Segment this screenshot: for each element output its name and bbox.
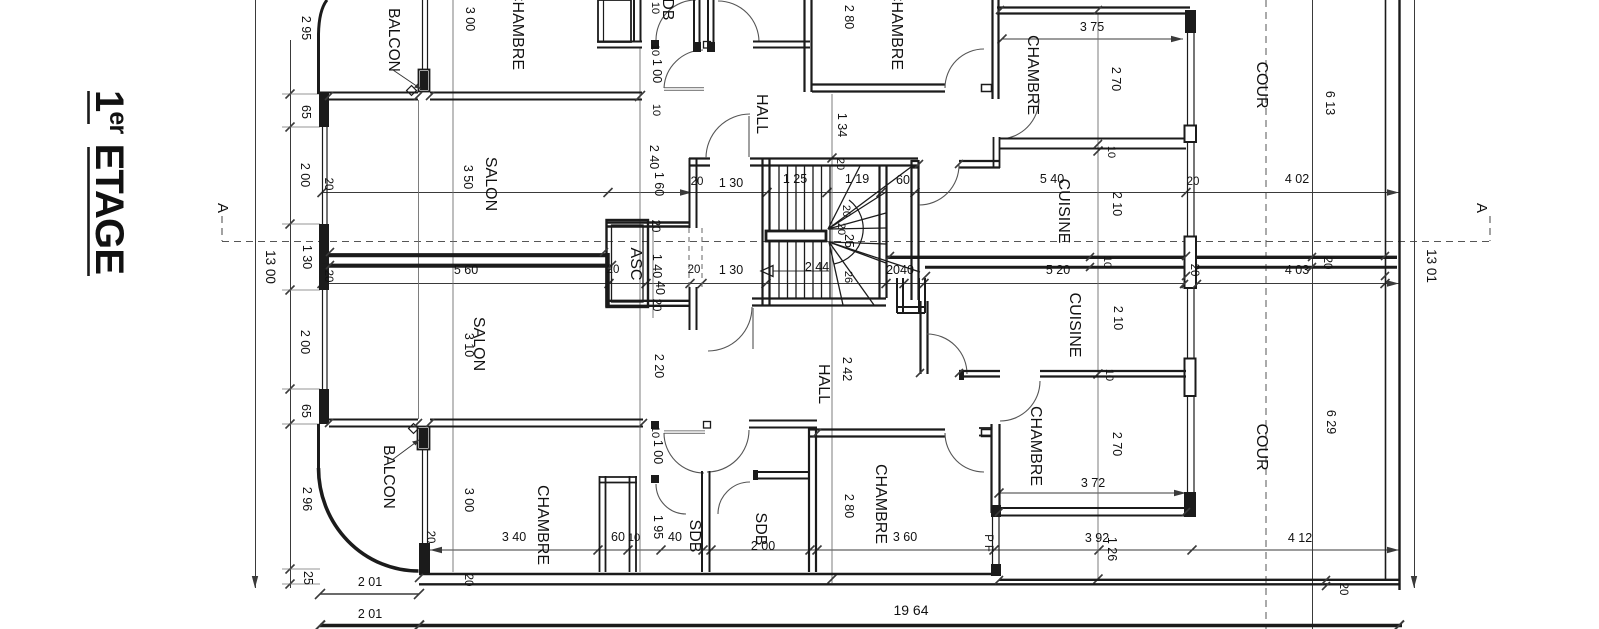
dim 65 a bbox=[299, 105, 313, 119]
dim row 2 01 upper bbox=[315, 575, 424, 599]
junction slashes party right bbox=[886, 252, 1389, 280]
door leaf chambre top-left bbox=[664, 88, 704, 91]
svg-text:1 34: 1 34 bbox=[835, 113, 849, 137]
stair arrow line bbox=[773, 270, 829, 272]
dim 5 40 bbox=[1040, 172, 1064, 186]
label BALCON bottom bbox=[380, 440, 419, 509]
dim 20 left wall b bbox=[322, 270, 334, 283]
svg-text:20: 20 bbox=[1188, 264, 1200, 277]
svg-text:65: 65 bbox=[299, 105, 313, 119]
party wall lower left bbox=[322, 264, 606, 268]
svg-text:CHAMBRE: CHAMBRE bbox=[872, 464, 889, 544]
svg-text:2 44: 2 44 bbox=[805, 260, 829, 274]
dim 1 00 top bbox=[650, 59, 664, 83]
label BALCON top bbox=[385, 8, 421, 89]
dim 1 34 bbox=[835, 113, 849, 137]
svg-text:2 70: 2 70 bbox=[1109, 67, 1123, 91]
dim 40 asc bbox=[653, 281, 667, 295]
dim 10 below facade bbox=[650, 104, 662, 116]
wall x911 bbox=[912, 160, 919, 300]
wall chambre-r south y138 bbox=[994, 137, 1187, 168]
svg-text:2 80: 2 80 bbox=[842, 494, 856, 518]
corridor wall east bbox=[749, 421, 817, 428]
svg-text:2040: 2040 bbox=[886, 263, 914, 277]
svg-text:3 72: 3 72 bbox=[1081, 476, 1105, 490]
dim 20 asc l bbox=[607, 264, 620, 276]
dim 20 facade bottom bbox=[462, 574, 474, 587]
svg-text:2 00: 2 00 bbox=[298, 330, 312, 354]
wall cuisine north y161 bbox=[911, 161, 919, 168]
balcony door post top bbox=[419, 70, 430, 92]
dim 40 sdb bbox=[668, 530, 682, 544]
dim 60 stair bbox=[896, 173, 910, 187]
svg-text:2 10: 2 10 bbox=[1111, 306, 1125, 330]
label A left bbox=[214, 203, 231, 213]
svg-text:1 40: 1 40 bbox=[650, 254, 664, 278]
dim row 4 12 bbox=[430, 546, 1399, 555]
dim 20 asc bottom bbox=[650, 299, 662, 312]
dim 1 30 bottom bbox=[719, 263, 743, 277]
svg-text:ASC: ASC bbox=[627, 248, 644, 281]
svg-text:2 95: 2 95 bbox=[299, 16, 313, 40]
svg-text:5 60: 5 60 bbox=[454, 263, 478, 277]
balcony window top bbox=[423, 0, 428, 69]
svg-text:20: 20 bbox=[1337, 583, 1349, 596]
dim row 3 72 bbox=[995, 476, 1187, 498]
door arc chambre-rb bbox=[1000, 381, 1040, 421]
dim line 13 00 bbox=[252, 0, 278, 588]
wall cuisine-b south y371 bbox=[959, 370, 1000, 380]
svg-text:1 19: 1 19 bbox=[845, 172, 869, 186]
svg-text:3 60: 3 60 bbox=[893, 530, 917, 544]
wall hall east x809 bbox=[809, 428, 816, 572]
balcony bottom curve wall bbox=[319, 468, 419, 571]
svg-text:20: 20 bbox=[691, 176, 704, 188]
junction slashes bottom walls bbox=[916, 369, 1190, 516]
wall sdb1/sdb2 x702 bbox=[702, 471, 710, 572]
balcony wall block bottom bbox=[419, 543, 430, 573]
ext line x418 bbox=[418, 100, 420, 419]
double wall sdb east 1 bbox=[694, 0, 700, 42]
svg-text:CHAMBRE: CHAMBRE bbox=[534, 485, 551, 565]
svg-text:1 30: 1 30 bbox=[300, 245, 314, 269]
dim 2 96 bbox=[300, 487, 314, 511]
dim 2 00 sdb bbox=[751, 539, 775, 553]
label CHAMBRE bottom-right bbox=[1027, 406, 1044, 486]
east wall corner block bottom bbox=[1184, 492, 1196, 517]
svg-text:A: A bbox=[214, 203, 231, 213]
window PF bbox=[991, 505, 1001, 576]
svg-text:20: 20 bbox=[1321, 257, 1333, 270]
svg-text:1 00: 1 00 bbox=[651, 440, 665, 464]
label SALON top bbox=[482, 157, 499, 211]
balcony door post bottom bbox=[418, 427, 430, 450]
left wall pier 3 bbox=[319, 389, 329, 424]
wall cuisine-b south y371 b bbox=[1040, 371, 1186, 377]
dim 5 60 bbox=[454, 263, 478, 277]
svg-text:20: 20 bbox=[649, 220, 661, 233]
bottom facade west bbox=[329, 420, 418, 427]
stair top wall bbox=[689, 159, 710, 166]
window left upper bbox=[323, 127, 328, 224]
svg-text:26: 26 bbox=[842, 271, 854, 283]
label HALL top bbox=[753, 94, 770, 134]
svg-text:20: 20 bbox=[1187, 176, 1200, 188]
dim 25 bbox=[301, 571, 315, 585]
svg-text:20: 20 bbox=[688, 264, 701, 276]
stair left wall bbox=[763, 158, 770, 306]
svg-text:10: 10 bbox=[649, 426, 661, 438]
wall chambre-c west x804 bbox=[805, 0, 812, 92]
elevator ASC box bbox=[607, 220, 649, 307]
svg-text:2 10: 2 10 bbox=[1110, 192, 1124, 216]
dim 3 50 bbox=[461, 165, 475, 189]
jamb bottom strip bbox=[704, 422, 711, 429]
svg-text:3 75: 3 75 bbox=[1080, 20, 1104, 34]
label CHAMBRE top-center bbox=[888, 0, 905, 70]
party wall upper mid bbox=[606, 223, 690, 227]
dim 1 30 l bbox=[300, 245, 314, 269]
door arc hall top bbox=[706, 114, 750, 158]
junction slashes facade bottom bbox=[325, 419, 821, 437]
east wall corner block top bbox=[1185, 10, 1196, 33]
dim 4 12 bbox=[1288, 531, 1312, 545]
dim 2 00 a bbox=[298, 163, 312, 187]
svg-text:10: 10 bbox=[1105, 146, 1117, 158]
east wall jamb box 2 bbox=[1185, 359, 1196, 397]
stair treads bbox=[779, 166, 830, 298]
dim 10 c bbox=[649, 426, 661, 438]
dim 2 01 lower bbox=[358, 607, 382, 621]
junction slashes party left bbox=[326, 248, 616, 269]
svg-text:CHAMBRE: CHAMBRE bbox=[1024, 35, 1041, 115]
dim 20 pier bottom bbox=[424, 531, 436, 544]
dim 1 26 bbox=[1105, 537, 1119, 561]
svg-text:2 70: 2 70 bbox=[1110, 432, 1124, 456]
party wall lower right bbox=[925, 266, 1397, 269]
label COUR top bbox=[1253, 61, 1270, 108]
wall top strip y41 east bbox=[753, 42, 810, 48]
ext line x640 bbox=[639, 48, 641, 572]
label SDB2 bbox=[752, 513, 769, 546]
dim 4 03 bbox=[1285, 263, 1309, 277]
dim 2 10 top bbox=[1110, 192, 1124, 216]
svg-text:25: 25 bbox=[301, 571, 315, 585]
dim 1 40 asc bbox=[650, 254, 664, 278]
svg-text:10: 10 bbox=[649, 44, 661, 56]
dim 2 20 bbox=[652, 354, 666, 378]
wall sdb north y41 bbox=[597, 40, 659, 49]
door arc top strip right bbox=[718, 1, 759, 42]
svg-text:1 30: 1 30 bbox=[719, 176, 743, 190]
svg-text:CHAMBRE: CHAMBRE bbox=[1027, 406, 1044, 486]
label CHAMBRE top-left bbox=[509, 0, 526, 70]
left dim ticks bbox=[286, 90, 295, 589]
svg-text:3 00: 3 00 bbox=[463, 7, 477, 31]
svg-text:CUISINE: CUISINE bbox=[1066, 293, 1083, 358]
svg-text:10: 10 bbox=[628, 532, 640, 544]
svg-text:19 64: 19 64 bbox=[893, 602, 928, 618]
dim 20 cour south bbox=[1337, 583, 1349, 596]
dim 2 42 bbox=[840, 357, 854, 381]
dim 65 b bbox=[299, 404, 313, 418]
svg-text:CHAMBRE: CHAMBRE bbox=[888, 0, 905, 70]
dim 19 64 bbox=[893, 602, 928, 618]
dim 5 20 bbox=[1046, 263, 1070, 277]
section line A-A dashed bbox=[222, 216, 1490, 242]
stair winder fan lower bbox=[829, 242, 920, 305]
duct shaft box bbox=[897, 278, 925, 313]
svg-text:A: A bbox=[1473, 203, 1490, 213]
hall west wall upper bbox=[690, 158, 697, 228]
dim 2 70 top bbox=[1109, 67, 1123, 91]
svg-text:1 95: 1 95 bbox=[651, 515, 665, 539]
svg-text:2 01: 2 01 bbox=[358, 575, 382, 589]
door arc sdb2 bbox=[718, 482, 750, 514]
party wall jog bbox=[605, 253, 610, 307]
door arc chambre-r bbox=[999, 99, 1039, 139]
dim 3 00 top bbox=[463, 7, 477, 31]
label CUISINE bottom bbox=[1066, 293, 1083, 358]
svg-text:1 25: 1 25 bbox=[783, 172, 807, 186]
dim row 19 64 bottom bbox=[315, 621, 1404, 629]
svg-text:20: 20 bbox=[322, 270, 334, 283]
dim 6 13 bbox=[1323, 91, 1337, 115]
dim 2 95 bbox=[299, 16, 313, 40]
dim 20 stair a bbox=[835, 223, 847, 235]
wall chambre/sdb top x635 bbox=[634, 0, 641, 42]
svg-text:3 10: 3 10 bbox=[462, 333, 476, 357]
dim 20 east top bbox=[1187, 176, 1200, 188]
wall x991 bottom bbox=[979, 424, 1000, 513]
door arc chambre top-left bbox=[664, 50, 703, 88]
svg-text:3 50: 3 50 bbox=[461, 165, 475, 189]
double wall sdb east 2 bbox=[693, 0, 715, 52]
south facade wall bbox=[419, 574, 1399, 584]
party wall upper right bbox=[887, 256, 1397, 259]
party wall junction ticks bbox=[1086, 253, 1316, 271]
dim 2 80 top bbox=[842, 5, 856, 29]
stair well dashed bbox=[689, 228, 702, 288]
svg-text:3 00: 3 00 bbox=[462, 488, 476, 512]
svg-text:2 00: 2 00 bbox=[298, 163, 312, 187]
wall cuisine-b west x920 bbox=[921, 301, 928, 374]
left dim chain line bbox=[290, 40, 292, 588]
dim 10 chambre r bbox=[1105, 146, 1117, 158]
stair bottom wall bbox=[752, 299, 886, 306]
svg-text:2 96: 2 96 bbox=[300, 487, 314, 511]
left wall pier 2 bbox=[319, 224, 329, 290]
dim 2 00 b bbox=[298, 330, 312, 354]
wall asc bottom bbox=[606, 301, 690, 306]
dim 1 19 bbox=[845, 172, 869, 186]
svg-text:5 20: 5 20 bbox=[1046, 263, 1070, 277]
wall sdb2 north bbox=[753, 470, 810, 480]
label SDB top bbox=[659, 0, 676, 20]
svg-text:COUR: COUR bbox=[1253, 423, 1270, 470]
window left lower bbox=[323, 290, 328, 389]
svg-text:13 01: 13 01 bbox=[1424, 249, 1439, 283]
svg-text:20: 20 bbox=[462, 574, 474, 587]
dim 10 junction r bbox=[1101, 256, 1113, 268]
door leaf corridor bbox=[664, 431, 705, 434]
dim 1 30 top bbox=[719, 176, 743, 190]
svg-text:CUISINE: CUISINE bbox=[1055, 179, 1072, 244]
door mark diamond bottom bbox=[409, 424, 419, 434]
door arc cuisine bottom bbox=[927, 334, 967, 374]
junction slashes facade top bbox=[325, 92, 434, 100]
svg-text:2 40: 2 40 bbox=[647, 145, 661, 169]
svg-text:2 01: 2 01 bbox=[358, 607, 382, 621]
svg-text:HALL: HALL bbox=[815, 364, 832, 404]
balcony window bottom bbox=[423, 450, 428, 543]
svg-text:20: 20 bbox=[607, 264, 620, 276]
door arc corridor left bbox=[664, 433, 704, 473]
dim 2 44 bbox=[805, 260, 829, 274]
dim 20 asc top bbox=[649, 220, 661, 233]
dim row 3 75 bbox=[998, 20, 1184, 44]
svg-text:2 20: 2 20 bbox=[652, 354, 666, 378]
top facade wall east bbox=[430, 91, 645, 101]
dim 4 02 bbox=[1285, 172, 1309, 186]
svg-text:1 60: 1 60 bbox=[652, 172, 666, 196]
label CHAMBRE top-right bbox=[1024, 35, 1041, 115]
dim 20 hall top bbox=[691, 176, 704, 188]
east wall junction box bbox=[1180, 237, 1201, 289]
svg-text:20: 20 bbox=[840, 205, 852, 217]
dim 1 00 bottom bbox=[651, 440, 665, 464]
dim 1 95 bbox=[651, 515, 665, 539]
svg-text:2 00: 2 00 bbox=[751, 539, 775, 553]
svg-text:BALCON: BALCON bbox=[385, 8, 402, 72]
svg-text:3 92: 3 92 bbox=[1085, 531, 1109, 545]
label CHAMBRE bottom-left bbox=[534, 485, 551, 565]
left wall pier 1 bbox=[319, 92, 329, 127]
svg-text:20: 20 bbox=[834, 158, 846, 170]
balcony side wall bottom bbox=[317, 424, 320, 468]
junction slashes top right bbox=[915, 6, 1102, 168]
dim line 13 01 bbox=[1411, 0, 1439, 588]
dim 3 40 bbox=[502, 530, 526, 544]
svg-text:10: 10 bbox=[649, 2, 661, 14]
svg-text:3 40: 3 40 bbox=[502, 530, 526, 544]
svg-text:20: 20 bbox=[650, 299, 662, 312]
svg-text:SDB: SDB bbox=[686, 520, 703, 553]
closet top-left chamber bbox=[598, 0, 631, 42]
top facade wall west bbox=[319, 93, 418, 100]
svg-text:13 00: 13 00 bbox=[263, 250, 278, 284]
wall chambre-rb south bbox=[999, 492, 1196, 517]
svg-text:CHAMBRE: CHAMBRE bbox=[509, 0, 526, 70]
wall x992 top bbox=[993, 0, 999, 99]
ext line x453 bbox=[452, 0, 454, 572]
dim 1 60 bbox=[652, 172, 666, 196]
label CHAMBRE bottom-center bbox=[872, 464, 889, 544]
svg-text:40: 40 bbox=[668, 530, 682, 544]
svg-text:P F: P F bbox=[982, 534, 994, 552]
svg-text:BALCON: BALCON bbox=[380, 445, 397, 509]
door arc chambre-c bbox=[945, 49, 984, 88]
hall west wall lower bbox=[690, 287, 697, 330]
svg-text:40: 40 bbox=[653, 281, 667, 295]
dim 20 stair top bbox=[834, 158, 846, 170]
dim 10 cuisine b bbox=[1103, 369, 1115, 381]
label HALL bottom bbox=[815, 364, 832, 404]
dim 1 25 bbox=[783, 172, 807, 186]
label COUR bottom bbox=[1253, 423, 1270, 470]
svg-text:6 13: 6 13 bbox=[1323, 91, 1337, 115]
dim 3 92 bbox=[1085, 531, 1109, 545]
label PF bbox=[982, 534, 994, 552]
dim 6 29 bbox=[1324, 410, 1338, 434]
left dim ext lines bbox=[282, 94, 320, 584]
svg-text:2 80: 2 80 bbox=[842, 5, 856, 29]
stair handrail bbox=[766, 231, 826, 241]
stair arrow triangle bbox=[761, 266, 773, 277]
stair right wall bbox=[880, 166, 887, 298]
stair winder fan upper bbox=[828, 166, 911, 264]
svg-text:4 12: 4 12 bbox=[1288, 531, 1312, 545]
dim row y283 bbox=[318, 279, 1400, 288]
svg-text:65: 65 bbox=[299, 404, 313, 418]
dim row y191 bbox=[318, 188, 1400, 197]
party wall upper left bbox=[329, 253, 607, 257]
dim 60 closet bbox=[611, 530, 625, 544]
door arc chambre-cb bbox=[945, 433, 984, 472]
dim 3 60 bbox=[893, 530, 917, 544]
dim 2 10 bottom bbox=[1111, 306, 1125, 330]
svg-text:60: 60 bbox=[896, 173, 910, 187]
outer east wall bbox=[1386, 0, 1400, 590]
svg-text:COUR: COUR bbox=[1253, 61, 1270, 108]
door arc sdb1 bbox=[651, 475, 686, 514]
dim 2 70 bottom bbox=[1110, 432, 1124, 456]
svg-text:20: 20 bbox=[424, 531, 436, 544]
dim 3 10 bbox=[462, 333, 476, 357]
wall cuisine north y161 b bbox=[959, 161, 1000, 168]
bottom facade east bbox=[430, 420, 659, 430]
svg-text:1 30: 1 30 bbox=[719, 263, 743, 277]
dim 26 stair bbox=[842, 271, 854, 283]
cour south wall bbox=[999, 579, 1399, 581]
ext line x1098 bbox=[1094, 14, 1103, 584]
svg-text:25: 25 bbox=[842, 234, 856, 248]
east wall window lines bbox=[1188, 33, 1195, 492]
dim 10 closet bbox=[628, 532, 640, 544]
svg-text:10: 10 bbox=[650, 104, 662, 116]
dim 20 left wall a bbox=[322, 178, 334, 191]
label A right bbox=[1473, 203, 1490, 213]
dim 20 east mid bbox=[1188, 264, 1200, 277]
svg-text:60: 60 bbox=[611, 530, 625, 544]
svg-text:4 03: 4 03 bbox=[1285, 263, 1309, 277]
closet bottom box bbox=[599, 476, 637, 572]
dim 2 40 bbox=[647, 145, 661, 169]
dim 10 a bbox=[649, 2, 661, 14]
label SALON bottom bbox=[470, 317, 487, 371]
junction slashes south bbox=[415, 574, 1330, 590]
door arc cuisine top bbox=[919, 165, 959, 205]
door arc hall bottom bbox=[708, 307, 753, 351]
stair top wall b bbox=[750, 159, 918, 166]
svg-text:10: 10 bbox=[1101, 256, 1113, 268]
svg-text:6 29: 6 29 bbox=[1324, 410, 1338, 434]
wall chambre-c south y84 bbox=[812, 85, 992, 92]
jamb top strip bbox=[704, 42, 711, 49]
label SDB1 bbox=[686, 520, 703, 553]
svg-text:HALL: HALL bbox=[753, 94, 770, 134]
svg-text:5 40: 5 40 bbox=[1040, 172, 1064, 186]
